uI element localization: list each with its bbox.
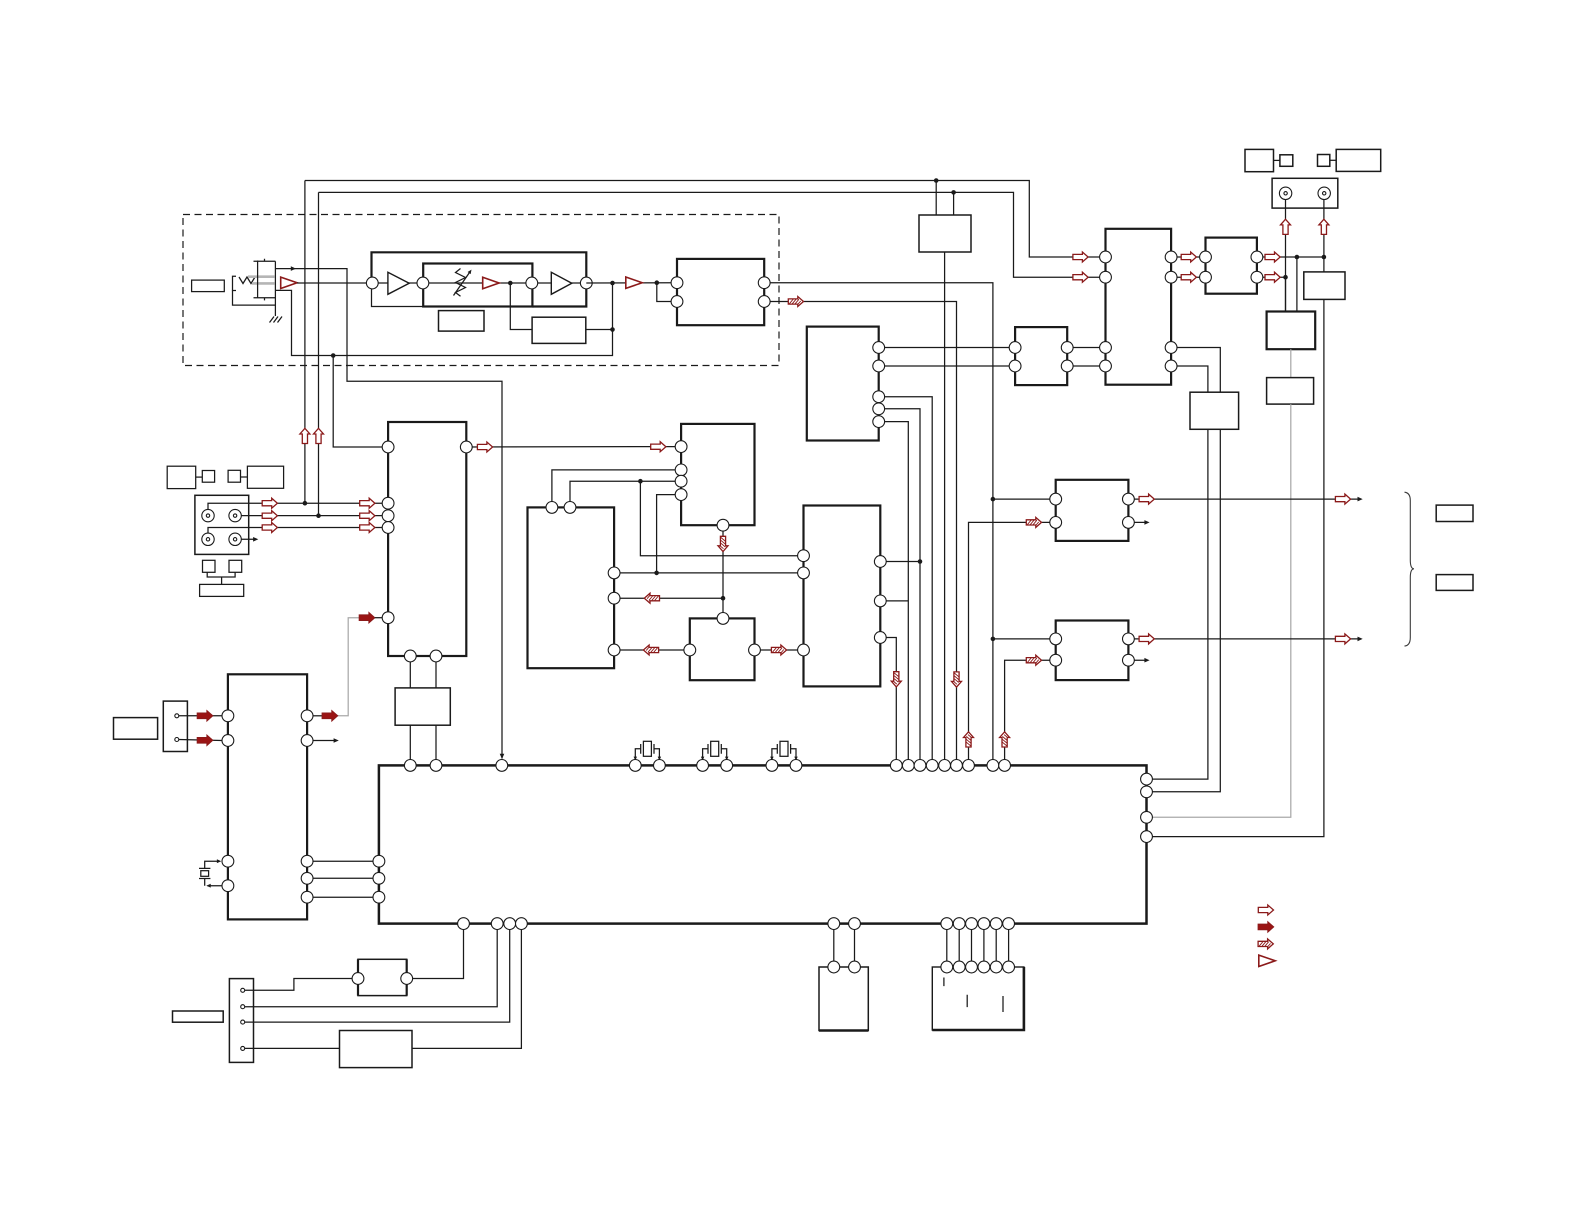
wire key1 xyxy=(179,715,222,717)
wire U1 bottom pin2 xyxy=(435,656,437,688)
wire inv out xyxy=(412,930,521,1049)
wire U10 out gray start xyxy=(307,715,322,717)
pins U3b xyxy=(717,613,729,625)
pickup top electrode xyxy=(254,259,276,262)
dashed boundary of optical pickup / RF section xyxy=(183,215,779,366)
crystal X2 xyxy=(701,741,729,765)
link line xyxy=(196,476,203,478)
pins U5 xyxy=(873,342,885,354)
decoder block U5 xyxy=(807,327,879,441)
arrow right U3b xyxy=(771,645,786,655)
motor block xyxy=(819,967,868,1031)
arrow focus filled xyxy=(359,613,375,623)
photodetector bar xyxy=(257,261,259,298)
wire hp down2 xyxy=(1152,429,1208,779)
small square 2 xyxy=(228,470,240,482)
node pin3 branch xyxy=(638,479,643,484)
arrows key filled xyxy=(197,711,213,721)
AGC loop thick box xyxy=(372,252,587,306)
pins LPF R xyxy=(1050,633,1062,645)
node line1 join xyxy=(303,501,308,506)
speaker box 1 xyxy=(1436,505,1473,521)
arrow down on 956 xyxy=(952,672,962,687)
link line xyxy=(241,476,248,478)
wire key2 xyxy=(179,740,222,741)
wire U3 right1 xyxy=(614,572,803,574)
arrows audio rows set2 xyxy=(360,498,375,508)
arrow left on row xyxy=(644,593,659,603)
wire EFM out upper to bus xyxy=(764,283,993,766)
line out plate xyxy=(1272,178,1338,208)
arrows U8 out xyxy=(1265,252,1280,262)
pin circle AGC in xyxy=(366,277,378,289)
audio out IC U7 xyxy=(1106,229,1172,385)
pin circle inner out xyxy=(526,277,538,289)
wire jackL drop xyxy=(1285,193,1287,311)
gray wire filter down xyxy=(1290,349,1292,377)
wire main RF line xyxy=(297,282,372,284)
jack block lower square 2 xyxy=(229,560,242,572)
pins DSP right edge xyxy=(1141,773,1153,785)
DAC block U3 xyxy=(528,507,615,668)
node line1 tap xyxy=(934,178,939,183)
EFM comparator block xyxy=(677,259,764,325)
interface block U3b xyxy=(690,618,755,680)
resistor box R1 xyxy=(532,317,586,343)
wire U3 right3 xyxy=(614,649,690,651)
pins U3 xyxy=(546,502,558,514)
contacts xyxy=(241,988,245,992)
wire jack4 stub xyxy=(235,538,254,540)
main DSP system IC (wide block) xyxy=(379,765,1147,923)
remote square B xyxy=(1318,155,1330,167)
node line2 tap xyxy=(951,190,956,195)
jack out R xyxy=(1318,187,1330,199)
wire U1 bottom pin1 xyxy=(409,656,411,688)
battery ticks xyxy=(944,978,1003,1013)
power supply block xyxy=(932,967,1024,1030)
variable attenuator xyxy=(456,269,466,297)
wire motor sense down xyxy=(944,252,946,765)
wire arrow to pin xyxy=(375,617,382,619)
arrows audio rows set1 xyxy=(262,498,277,508)
wire U3 right2 xyxy=(614,597,723,599)
jack 3 xyxy=(202,533,214,545)
wire U1 output top xyxy=(466,446,681,448)
node main out xyxy=(610,281,615,286)
wire power 6 lines xyxy=(946,924,948,967)
wire U2 pin4 xyxy=(657,495,676,573)
grating zigzag xyxy=(239,277,255,284)
output filter box thick xyxy=(1267,312,1316,350)
wire disp4 xyxy=(245,1047,340,1049)
wire U8 out1 xyxy=(1257,256,1324,258)
beam path upper bar xyxy=(248,275,275,278)
wire L aux out xyxy=(1128,521,1145,523)
wire U10 to DSP row2 xyxy=(307,877,379,879)
pins DSP bottom left xyxy=(458,918,470,930)
wire driver to DSP 2 xyxy=(435,725,437,765)
wire U5 r2 xyxy=(879,365,1015,367)
remote box A xyxy=(1245,149,1274,171)
wire RF line inside AGC xyxy=(372,282,586,284)
wire U5 r1 xyxy=(879,347,1015,349)
wire line1 drop xyxy=(935,181,937,216)
pins U1 xyxy=(382,441,394,453)
wire out1 to filter xyxy=(1296,257,1298,312)
wire U2 pin2 from DAC xyxy=(552,470,675,508)
jack base box xyxy=(200,584,244,596)
key contact 1 xyxy=(175,714,179,718)
wire U7 r3 to headjack xyxy=(1171,348,1220,393)
wire U4 right2 xyxy=(880,600,908,602)
pins motor xyxy=(828,918,840,930)
wire jackR drop xyxy=(1323,193,1325,272)
wire U7 out2 xyxy=(1171,276,1205,278)
link xyxy=(1330,159,1336,161)
headphone box right xyxy=(247,466,283,488)
wire return line xyxy=(275,283,612,356)
node pin4 join xyxy=(654,571,659,576)
arrow into U2 xyxy=(651,442,666,452)
oscillator box xyxy=(358,959,407,995)
pin circles EFM xyxy=(671,277,683,289)
wire osc up xyxy=(407,930,464,979)
rect label box left of pickup xyxy=(192,280,225,292)
wire U10 plain out xyxy=(307,740,334,742)
arrow EFM lower xyxy=(788,297,803,307)
pickup bottom electrode xyxy=(254,298,276,301)
wire U10 to DSP row1 xyxy=(307,860,379,862)
pins U2 xyxy=(675,441,687,453)
wire bus up arrows on 968 xyxy=(969,522,1056,765)
pins U6 xyxy=(1009,342,1021,354)
ground xyxy=(270,317,283,323)
laser diode package bracket xyxy=(233,276,237,290)
wire left drop line2 xyxy=(318,192,320,515)
arrow filled u10 xyxy=(322,711,338,721)
legend arrow filled xyxy=(1258,922,1274,932)
link xyxy=(1274,159,1280,161)
node agc tap xyxy=(508,281,513,286)
wire AGC feedback down xyxy=(510,283,532,330)
key label box xyxy=(114,718,158,740)
arrow down U2 xyxy=(718,536,728,551)
legend triangle xyxy=(1259,955,1275,966)
pins U8 xyxy=(1200,251,1212,263)
wire bus up 1004 xyxy=(1005,660,1056,765)
legend arrow outline xyxy=(1258,905,1273,915)
wire split to lower pin xyxy=(657,283,671,302)
wire U10 to DSP row3 xyxy=(307,896,379,898)
arrow up line2 xyxy=(314,428,324,443)
arrows U7 out xyxy=(1181,252,1196,262)
pins U4 xyxy=(798,550,810,562)
node taps on 992.9 xyxy=(993,498,1056,500)
arrow U1 out xyxy=(477,442,492,452)
wire squares join xyxy=(207,572,235,584)
wire U6 out2 xyxy=(1067,365,1105,367)
arrows into U7 xyxy=(1073,252,1088,262)
wire RF to EFM block xyxy=(586,282,677,284)
wire jack2 row xyxy=(235,515,382,517)
wire U7 out1 xyxy=(1171,256,1205,258)
wire into filter 2 xyxy=(1285,277,1287,311)
wire rf long down xyxy=(1152,299,1324,836)
system controller block U10 xyxy=(228,674,307,919)
wire motor drv pair xyxy=(833,924,835,967)
legend arrow hatched xyxy=(1258,939,1273,949)
amp A4 xyxy=(551,272,572,294)
wire U3b out xyxy=(755,649,804,651)
pins DSP left edge xyxy=(373,855,385,867)
arrows up to jacks xyxy=(1281,219,1291,234)
pins power top xyxy=(941,918,953,930)
RAM block U4 xyxy=(804,506,881,687)
driver box U1b xyxy=(395,688,450,725)
wire driver to DSP 1 xyxy=(409,725,411,765)
pins U10 xyxy=(222,710,234,722)
level box xyxy=(1267,378,1314,405)
pickup common vertical xyxy=(274,261,276,316)
small square 1 xyxy=(202,471,214,483)
wire Rch out xyxy=(1128,638,1358,640)
crystal X1 xyxy=(634,741,662,765)
wire left drop line1 xyxy=(304,181,306,504)
wire U2 pin3 from DAC xyxy=(570,481,675,507)
jack R xyxy=(229,509,241,521)
node line2 join xyxy=(316,513,321,518)
speaker box 2 xyxy=(1436,575,1473,591)
node EFM in split xyxy=(655,280,660,285)
key contact 2 xyxy=(175,738,179,742)
node feedback join xyxy=(610,327,615,332)
beam path lower bar xyxy=(252,282,275,285)
wire R aux out xyxy=(1128,659,1145,661)
gray tracking wire xyxy=(337,618,359,716)
node U2 bottom tap xyxy=(721,596,726,601)
wire branch to servo block pin1 xyxy=(333,356,382,448)
wire disp3 xyxy=(245,930,510,1023)
node return branch xyxy=(331,353,336,358)
headphone box pair left xyxy=(167,466,196,488)
pins DSP top edge xyxy=(404,760,416,772)
wire U4 right1 xyxy=(880,561,920,563)
LPF block L xyxy=(1056,480,1129,541)
wire monitor diode line xyxy=(275,269,502,759)
remote box B xyxy=(1336,149,1381,171)
RF level box xyxy=(1304,272,1345,300)
node bus tap xyxy=(918,559,923,564)
ceramic resonator xyxy=(199,859,222,887)
amp A5 (red) xyxy=(626,277,642,288)
line out jack block xyxy=(195,495,249,554)
wire top long line 1 xyxy=(305,181,1106,258)
wire U8 out2 xyxy=(1257,276,1286,278)
gray wire long down xyxy=(1152,404,1290,817)
inner loop thick box xyxy=(423,264,532,307)
amp A3 (red) xyxy=(483,277,499,288)
node on out2 xyxy=(1283,275,1288,280)
wire Lch out xyxy=(1128,498,1358,500)
wire U4 right3 xyxy=(880,638,896,766)
adjust box B1 xyxy=(439,311,485,332)
display label box xyxy=(173,1011,224,1022)
wire U5 r3 bus xyxy=(879,397,933,766)
amp A2 xyxy=(388,272,409,294)
arrow up line1 xyxy=(300,428,310,443)
wire jack1 row xyxy=(208,503,382,515)
nodes on out1 xyxy=(1295,255,1300,260)
wire disp1 xyxy=(245,979,358,991)
pins U7 xyxy=(1100,251,1112,263)
spindle motor box xyxy=(919,215,971,252)
amp A1 (red) pickup output xyxy=(281,277,297,288)
arrow left row3 xyxy=(643,645,658,655)
remote square A xyxy=(1280,155,1293,167)
pins LPF L xyxy=(1050,493,1062,505)
digital filter block U2 xyxy=(681,424,754,525)
pin circle inner in xyxy=(417,277,429,289)
wire U5 r4 bus xyxy=(879,409,920,766)
crystal X3 xyxy=(770,741,798,765)
pins osc xyxy=(352,973,364,985)
wire line2 drop xyxy=(953,192,955,215)
arrowhead into SENS pin xyxy=(500,754,505,759)
wire U5 r5 bus xyxy=(879,422,909,766)
jack out L xyxy=(1279,187,1291,199)
jack L xyxy=(202,509,214,521)
wire hp down1 xyxy=(1152,429,1220,792)
wire EFM out lower to bus xyxy=(764,302,956,766)
buffer block U6 xyxy=(1015,327,1067,385)
wire top long line 2 xyxy=(319,192,1106,277)
LPF block R xyxy=(1056,621,1129,681)
display connector xyxy=(229,979,253,1063)
wire U7 r4 to headjack xyxy=(1171,366,1208,392)
jack 4 xyxy=(229,533,241,545)
wire U2 bottom down xyxy=(722,525,724,618)
servo processor block U1 xyxy=(388,422,466,656)
wire branch down to U4 xyxy=(640,481,803,556)
mute block U8 xyxy=(1206,238,1257,294)
pin circle AGC out xyxy=(580,277,592,289)
brace outputs xyxy=(1405,492,1415,646)
jack block lower square 1 xyxy=(203,560,216,572)
key connector box xyxy=(163,701,187,751)
pickup case loop xyxy=(233,291,276,306)
wire jack3 row xyxy=(208,528,382,540)
wire U6 out1 xyxy=(1067,347,1105,349)
headphone amp box xyxy=(1190,392,1239,429)
arrowhead on monitor line xyxy=(291,266,296,271)
arrow down u4r3 xyxy=(891,672,901,687)
wire disp2 xyxy=(245,930,498,1007)
wire R1 to node xyxy=(586,329,613,331)
inverter box xyxy=(340,1031,413,1068)
